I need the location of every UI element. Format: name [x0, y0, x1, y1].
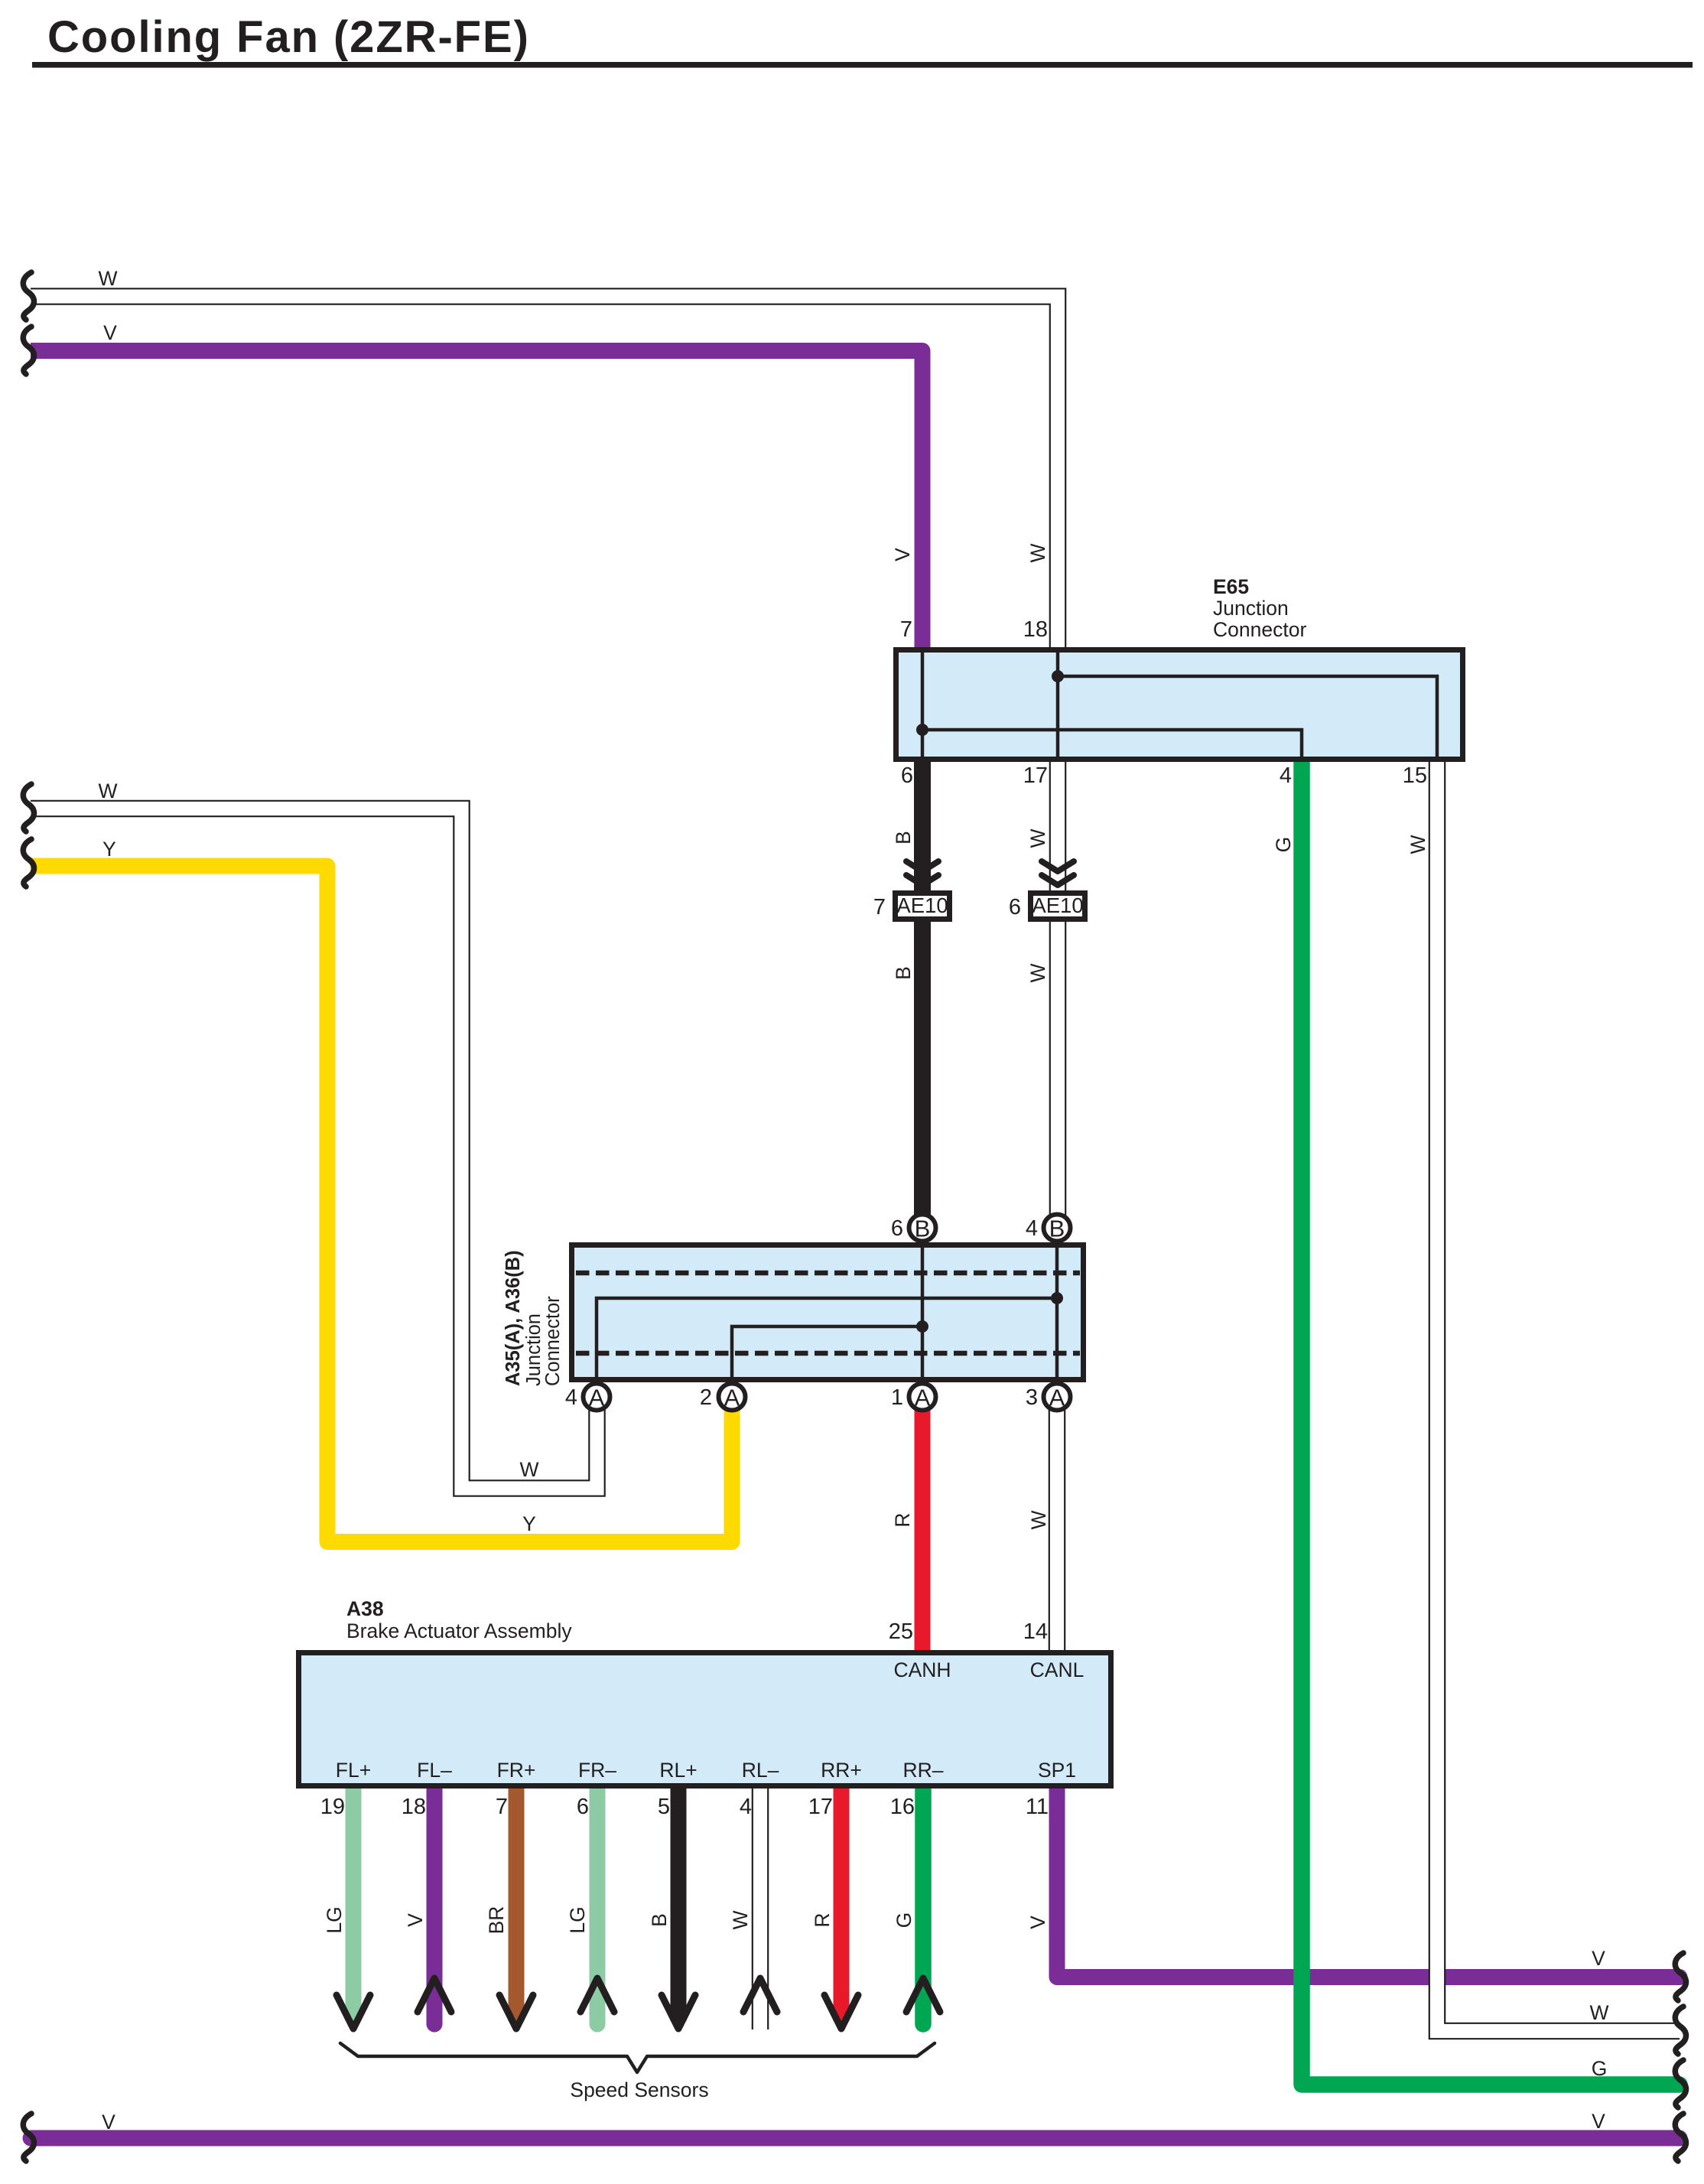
svg-text:4: 4 [740, 1795, 752, 1819]
svg-text:BR: BR [485, 1906, 508, 1935]
svg-text:5: 5 [658, 1795, 670, 1819]
svg-text:CANL: CANL [1030, 1658, 1085, 1681]
A35 internal wire 4B-3A [1055, 1246, 1059, 1378]
A35 pin circle 1A [909, 1384, 936, 1411]
svg-text:A38: A38 [346, 1597, 384, 1620]
svg-text:6: 6 [901, 763, 913, 788]
svg-text:18: 18 [402, 1795, 426, 1819]
wire LG speed sensor FR- pin 6 [590, 1782, 606, 2024]
svg-text:R: R [891, 1512, 914, 1527]
svg-text:17: 17 [1023, 763, 1048, 788]
A35 dashed separator bottom [576, 1351, 1080, 1356]
svg-text:RL+: RL+ [659, 1759, 697, 1782]
svg-text:Y: Y [522, 1512, 536, 1535]
svg-text:W: W [1026, 543, 1049, 562]
break squiggle V bottom-left [23, 2114, 34, 2161]
svg-text:B: B [892, 831, 915, 845]
svg-text:A35(A), A36(B): A35(A), A36(B) [502, 1250, 524, 1386]
arrow down FL+ [337, 1995, 370, 2029]
svg-text:1: 1 [891, 1385, 903, 1410]
svg-text:E65: E65 [1213, 575, 1249, 598]
break squiggle W right [1675, 2007, 1686, 2054]
wire V speed sensor FL- pin 18 [427, 1782, 443, 2024]
svg-text:V: V [1592, 2110, 1605, 2133]
svg-text:Cooling Fan (2ZR-FE): Cooling Fan (2ZR-FE) [47, 12, 530, 62]
arrow up FR- [580, 1978, 614, 2012]
wire V top (left edge to E65 pin 7) [31, 351, 922, 653]
svg-text:W: W [519, 1458, 538, 1481]
svg-text:18: 18 [1023, 617, 1048, 642]
svg-text:W: W [98, 267, 117, 290]
wire W top (left edge to E65 pin 18) [31, 297, 1058, 653]
shield chevrons above AE10 right [1042, 861, 1074, 871]
svg-text:RR–: RR– [902, 1759, 943, 1782]
svg-text:V: V [1026, 1915, 1049, 1929]
arrow down RL+ [662, 1995, 695, 2029]
svg-text:Connector: Connector [1213, 618, 1306, 641]
wire W speed sensor RL- pin 4 [752, 1782, 769, 2029]
wire R speed sensor RR+ pin 17 [834, 1782, 850, 2021]
svg-text:W: W [1026, 963, 1049, 982]
svg-text:SP1: SP1 [1038, 1759, 1076, 1782]
svg-text:AE10: AE10 [896, 893, 948, 917]
svg-text:4: 4 [1280, 763, 1292, 788]
wire V purple SP1 (A38 pin 11 to right edge) [1057, 1782, 1680, 1977]
wire W (E65 pin 17 to A35 pin 4B) [1049, 757, 1067, 1216]
wire G green (E65 pin 4 to right edge) [1302, 757, 1680, 2085]
svg-text:Speed Sensors: Speed Sensors [570, 2078, 708, 2101]
wire W (E65 pin 15 to right edge) [1437, 757, 1680, 2031]
E65 junction dot [1052, 670, 1064, 682]
svg-text:B: B [1049, 1216, 1065, 1242]
svg-text:V: V [1592, 1947, 1605, 1970]
svg-text:11: 11 [1026, 1795, 1049, 1819]
svg-text:6: 6 [891, 1216, 903, 1241]
A35 pin circle 6B [909, 1215, 936, 1242]
svg-text:B: B [648, 1913, 671, 1927]
break squiggle V right [1675, 1953, 1686, 2000]
shield connector AE10 (pin 6) [1031, 893, 1085, 919]
A35 pin circle 3A [1044, 1384, 1071, 1411]
junction connector A35(A) A36(B) box [572, 1245, 1084, 1380]
svg-text:G: G [1592, 2057, 1608, 2080]
svg-text:W: W [1027, 1510, 1050, 1529]
A35 dashed separator top [576, 1271, 1080, 1276]
svg-text:W: W [98, 780, 117, 802]
break squiggle W top-left [23, 272, 34, 320]
svg-text:A: A [1049, 1385, 1065, 1411]
svg-text:FL–: FL– [417, 1759, 452, 1782]
svg-text:Junction: Junction [523, 1313, 545, 1386]
svg-text:RR+: RR+ [821, 1759, 862, 1782]
svg-text:7: 7 [496, 1795, 508, 1819]
svg-text:14: 14 [1023, 1619, 1048, 1644]
arrow down FR+ [499, 1995, 533, 2029]
shield connector AE10 (pin 7) [896, 893, 950, 919]
svg-text:FR+: FR+ [497, 1759, 536, 1782]
svg-text:2: 2 [700, 1385, 712, 1410]
arrow up FL- [418, 1978, 451, 2012]
arrow up RR- [906, 1978, 940, 2012]
break squiggle Y mid-left [23, 839, 34, 887]
svg-text:W: W [729, 1910, 752, 1929]
svg-text:Brake Actuator Assembly: Brake Actuator Assembly [346, 1619, 572, 1642]
wire BR speed sensor FR+ pin 7 [509, 1782, 525, 2021]
wire Y yellow (left edge to A35 pin 2A) [31, 866, 732, 1542]
svg-text:V: V [103, 321, 117, 344]
A35 pin circle 4B [1044, 1215, 1071, 1242]
svg-text:W: W [1406, 835, 1429, 854]
svg-text:Connector: Connector [542, 1296, 564, 1386]
svg-text:FL+: FL+ [336, 1759, 371, 1782]
svg-text:LG: LG [566, 1906, 589, 1933]
svg-text:LG: LG [323, 1906, 346, 1933]
svg-text:25: 25 [889, 1619, 913, 1644]
svg-text:Junction: Junction [1213, 597, 1289, 620]
svg-text:6: 6 [1009, 895, 1021, 919]
svg-text:7: 7 [873, 895, 886, 919]
svg-text:RL–: RL– [742, 1759, 779, 1782]
A35 pin circle 2A [719, 1384, 746, 1411]
svg-text:W: W [1026, 828, 1049, 848]
svg-text:G: G [1272, 837, 1295, 853]
E65 internal bus to pin 15 [1058, 676, 1437, 758]
svg-text:V: V [102, 2111, 115, 2134]
arrow up RL- [743, 1978, 777, 2012]
A35 pin circle 4A [584, 1384, 610, 1411]
wire LG speed sensor FL+ pin 19 [346, 1782, 362, 2021]
svg-text:Y: Y [102, 838, 116, 861]
svg-text:A: A [589, 1385, 605, 1411]
E65 junction dot [916, 724, 928, 736]
svg-text:16: 16 [890, 1795, 915, 1819]
svg-text:7: 7 [900, 617, 912, 642]
svg-text:6: 6 [577, 1795, 589, 1819]
svg-text:3: 3 [1026, 1385, 1038, 1410]
wire B speed sensor RL+ pin 5 [671, 1782, 687, 2021]
wire W middle-left (left edge to A35 pin 4A) [31, 809, 597, 1489]
svg-text:B: B [892, 966, 915, 980]
wire G speed sensor RR- pin 16 [915, 1782, 932, 2024]
svg-text:17: 17 [808, 1795, 833, 1819]
svg-text:G: G [893, 1912, 915, 1928]
A35 junction dot [1051, 1292, 1063, 1304]
speed sensors brace [340, 2043, 935, 2072]
shield chevrons above AE10 left [906, 861, 938, 871]
break squiggle G right [1675, 2060, 1686, 2108]
E65 internal bus to pin 4 [922, 730, 1302, 758]
svg-text:V: V [404, 1913, 427, 1927]
arrow down RR+ [824, 1995, 858, 2029]
svg-text:A: A [724, 1385, 740, 1411]
svg-text:AE10: AE10 [1032, 893, 1083, 917]
A35 internal bus to pin 4A [597, 1298, 1057, 1378]
svg-text:A: A [915, 1385, 931, 1411]
wire V bottom (left edge to right edge) [31, 2130, 1680, 2147]
svg-text:CANH: CANH [893, 1658, 951, 1681]
svg-text:4: 4 [1026, 1216, 1038, 1241]
break squiggle W mid-left [23, 784, 34, 832]
wire W (A35 pin 3A to A38 pin 14) [1049, 1409, 1066, 1654]
junction connector E65 box [896, 650, 1463, 760]
E65 internal wire pin18-pin17 [1056, 650, 1060, 758]
svg-text:19: 19 [320, 1795, 345, 1819]
title underline [32, 62, 1693, 68]
A35 internal bus to pin 2A [732, 1326, 922, 1378]
svg-text:4: 4 [565, 1385, 577, 1410]
break squiggle V top-left [23, 327, 34, 374]
svg-text:FR–: FR– [578, 1759, 616, 1782]
svg-text:B: B [915, 1216, 931, 1242]
svg-text:R: R [811, 1912, 834, 1927]
wire R red (A35 pin 1A to A38 pin 25) [915, 1409, 931, 1654]
svg-text:V: V [891, 548, 914, 561]
wire B black (E65 pin 6 to A35 pin 6B) [914, 757, 931, 1216]
brake actuator assembly A38 box [299, 1653, 1111, 1786]
A35 junction dot [916, 1320, 928, 1333]
E65 internal wire pin7-pin6 [921, 650, 925, 758]
svg-text:W: W [1589, 2001, 1608, 2024]
svg-text:15: 15 [1403, 763, 1427, 788]
break squiggle V bottom-right [1675, 2114, 1686, 2161]
A35 internal wire 6B-1A [921, 1246, 925, 1378]
